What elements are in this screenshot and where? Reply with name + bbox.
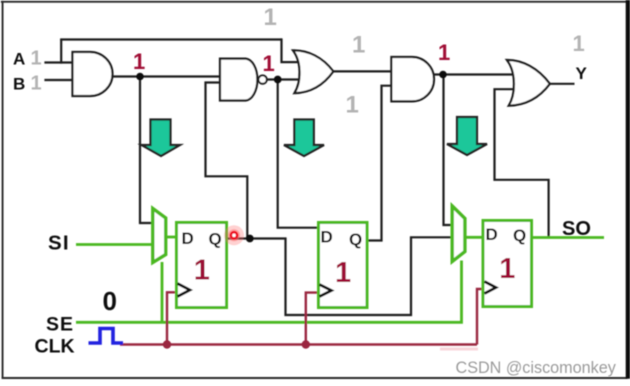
nand-gate NAND2 [220, 59, 257, 101]
wire AND4 output to OR5 input [434, 73, 520, 75]
svg-text:1: 1 [352, 32, 365, 59]
arrow indicator 2 [284, 120, 324, 157]
flip-flop FF3 clock chevron [485, 282, 497, 294]
junction FF1 Q node [246, 235, 254, 243]
wire J2 drop to FF2 D [278, 80, 319, 228]
wire SI green [76, 243, 153, 246]
border frame bottom [2, 377, 628, 379]
wire A stub up to top rail [60, 40, 62, 64]
wire mux3 output to FF3 D [465, 236, 484, 239]
border frame left [2, 1, 4, 379]
clock pulse symbol [89, 329, 124, 344]
wire CLK main [120, 343, 477, 345]
flip-flop FF3 box [483, 221, 532, 307]
svg-text:B: B [13, 75, 25, 94]
wire OR5 lower input from SO net [495, 89, 549, 237]
flip-flop FF1 box [177, 223, 227, 308]
wire OR5 output to Y [550, 83, 575, 85]
border frame right [626, 0, 630, 379]
svg-text:A: A [13, 50, 25, 69]
svg-text:1: 1 [263, 51, 275, 76]
and-gate AND1 [73, 52, 113, 96]
pink smear artifact [440, 348, 478, 351]
junction J2 [274, 76, 282, 84]
svg-text:1: 1 [499, 253, 515, 285]
wire A input [44, 61, 72, 63]
wire NAND2 output to OR3 input [267, 78, 306, 80]
mux M3 [452, 206, 465, 262]
svg-text:1: 1 [264, 4, 277, 31]
wire rail drop to OR3 top input [282, 38, 304, 62]
svg-text:1: 1 [438, 40, 450, 65]
svg-text:SI: SI [48, 232, 70, 255]
wire SE green rail [76, 261, 462, 323]
and-gate AND4 [391, 57, 434, 101]
svg-text:0: 0 [103, 286, 117, 316]
nand-gate NAND2 bubble [258, 75, 266, 83]
svg-text:1: 1 [194, 255, 210, 287]
wire mux1 output to FF1 D [166, 236, 177, 239]
arrow indicator 1 [142, 120, 181, 157]
svg-text:1: 1 [346, 92, 359, 119]
svg-text:SO: SO [562, 218, 591, 240]
flip-flop FF2 box [319, 223, 368, 308]
wire AND1 output to NAND2 input [113, 75, 222, 77]
wire B input [44, 79, 72, 81]
svg-text:1: 1 [31, 73, 42, 95]
svg-text:Q: Q [513, 226, 526, 245]
flip-flop FF2 clock chevron [320, 285, 332, 297]
junction J1 [136, 73, 144, 81]
svg-text:1: 1 [31, 48, 42, 70]
svg-text:CSDN @ciscomonkey: CSDN @ciscomonkey [456, 359, 617, 377]
node Q1 red indicator ring [231, 232, 237, 238]
border frame top [1, 1, 629, 3]
junction J3 [439, 71, 447, 79]
svg-text:D: D [486, 225, 498, 244]
or-gate OR3 [293, 50, 333, 93]
wire J1 drop to mux1 D0 [140, 77, 153, 224]
wire FF3 Q to SO [532, 236, 605, 239]
svg-text:SE: SE [46, 314, 74, 336]
wire top rail [60, 38, 281, 40]
svg-text:1: 1 [573, 31, 585, 56]
junction CLK-FF2 [302, 340, 310, 348]
flip-flop FF1 clock chevron [178, 284, 191, 297]
svg-text:Y: Y [576, 64, 588, 83]
wire FF1 clock [167, 292, 178, 344]
wire J3 drop to mux3 D0 [444, 75, 453, 226]
mux M1 [153, 209, 166, 263]
wire FF2 Q up to AND4 lower input [367, 86, 392, 241]
wire mux1 select from SE [161, 262, 164, 322]
svg-text:Q: Q [209, 230, 222, 249]
wire FF2 clock [306, 293, 320, 345]
or-gate OR5 [507, 60, 550, 106]
wire FF1 Q to mux3 D1 [228, 237, 453, 315]
junction CLK-FF1 [163, 340, 171, 348]
wire FF3 clock [477, 289, 485, 345]
svg-text:Q: Q [349, 230, 362, 249]
arrow indicator 3 [447, 117, 487, 155]
svg-text:D: D [182, 229, 194, 248]
svg-text:1: 1 [133, 49, 145, 74]
wire OR3 output to AND4 input [333, 70, 392, 72]
svg-text:1: 1 [335, 257, 351, 289]
wire NAND2 feedback input from FF1 Q [206, 83, 248, 239]
svg-text:CLK: CLK [35, 336, 75, 358]
svg-text:D: D [321, 228, 333, 247]
node Q1 red indicator glow [224, 225, 244, 245]
